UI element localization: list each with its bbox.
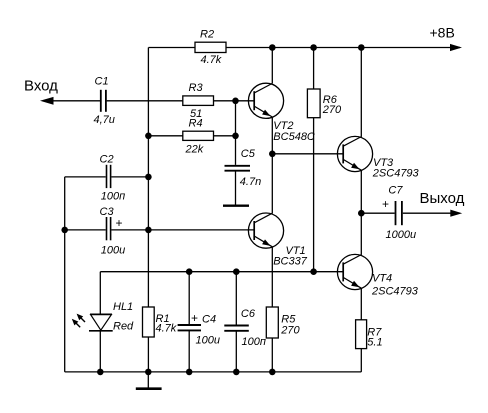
wire VT2 emitter down [271,117,273,154]
junction VT2 emitter node [269,151,276,158]
wire VT1 emitter down to R5 [271,246,273,307]
capacitor C7 [396,201,402,225]
resistor R3 [183,96,214,106]
wire C3 right lead to VT1 base [111,229,254,231]
junction C3 right [145,227,152,234]
wire top rail left segment [148,47,195,49]
junction R6 bottom VT4 base [310,268,317,275]
resistor R6 [307,89,320,118]
wire R6 top lead [313,48,315,90]
junction bottom ground [145,369,152,376]
junction top rail at VT3 collector [358,44,365,51]
svg-text:C3: C3 [100,206,115,218]
transistor VT1 [248,213,283,248]
svg-text:C7: C7 [388,185,403,197]
wire VT3 emitter down [360,170,362,213]
LED HL1 [89,314,113,331]
svg-text:4.7k: 4.7k [201,54,222,66]
wire C4 top lead [188,272,190,325]
junction R3 node [232,98,239,105]
wire R6 bottom column [313,118,315,272]
junction bottom C6 [233,369,240,376]
wire C3 left lead [65,229,106,231]
junction C2 right [145,174,152,181]
svg-text:R5: R5 [281,313,296,325]
wire top rail right segment to +8V arrow [226,47,460,49]
svg-text:5.1: 5.1 [367,336,382,348]
input arrow [40,97,54,105]
capacitor C5 [225,166,251,171]
wire left column below R1 [147,337,149,372]
transistor VT3 [337,136,372,171]
junction top rail at VT2 collector [269,44,276,51]
output arrow [450,210,462,217]
svg-text:270: 270 [280,325,300,337]
svg-text:C6: C6 [241,308,256,320]
wire C1 to R3 [107,100,183,102]
wire LED top lead [99,272,101,314]
junction top rail at R6 [310,44,317,51]
svg-text:R2: R2 [200,28,214,40]
wire node column R3/R4 [235,101,237,136]
resistor R5 [266,307,278,338]
wire C2 right lead [111,176,148,178]
junction C6 top [233,268,240,275]
wire C6 bottom lead [235,331,237,372]
wire VT1 collector up [271,154,273,214]
junction output node [358,210,365,217]
ground [136,387,162,390]
wire ground stem [147,372,149,388]
LED HL1 emission arrow 1 [77,314,85,322]
transistor VT4 [337,254,372,289]
wire left rail [64,177,66,372]
svg-text:270: 270 [322,104,342,116]
svg-text:BC548C: BC548C [273,131,315,143]
svg-text:+: + [116,216,123,230]
svg-text:C2: C2 [100,154,114,166]
svg-text:R3: R3 [189,82,204,94]
wire R4 right lead [214,135,236,137]
wire left column x=148 [147,48,149,308]
svg-text:100u: 100u [101,245,125,257]
wire output node to C7 [361,212,394,214]
wire input line from arrow to C1 [44,100,100,102]
capacitor C1 [101,90,106,112]
svg-text:2SC4793: 2SC4793 [371,286,419,298]
junction bottom LED [97,369,104,376]
junction R4 right [232,133,239,140]
svg-text:C5: C5 [241,148,256,160]
wire C7 to output arrow [403,212,460,214]
wire C4 bottom lead [188,330,190,372]
wire bias rail to VT4 base [100,271,343,273]
svg-text:2SC4793: 2SC4793 [372,167,420,179]
junction bottom C4 [186,369,193,376]
wire R4 node down to C5 [235,136,237,165]
svg-text:4.7k: 4.7k [156,323,177,335]
wire node A to VT3 base [272,153,343,155]
svg-text:VT4: VT4 [372,273,392,285]
resistor R1 [143,307,155,337]
capacitor C6 [224,326,249,331]
resistor R2 [195,42,226,52]
svg-text:+: + [191,311,198,325]
svg-text:R4: R4 [189,118,203,130]
svg-text:C1: C1 [95,76,109,88]
transistor VT2 [248,83,283,118]
wire R3 to VT2 base [214,100,255,102]
wire C6 top lead [235,272,237,326]
junction C4 top [186,268,193,275]
junction R4 left [145,133,152,140]
resistor R4 [183,131,214,140]
svg-text:22k: 22k [185,144,204,156]
svg-text:Red: Red [113,321,134,333]
svg-text:4,7u: 4,7u [94,114,115,126]
svg-text:100п: 100п [242,336,266,348]
junction bottom R5 [269,369,276,376]
svg-text:Выход: Выход [420,190,465,207]
wire R4 left lead [148,135,182,137]
svg-text:HL1: HL1 [113,301,133,313]
svg-text:BC337: BC337 [273,256,308,268]
svg-text:+8В: +8В [430,24,455,40]
wire R5 bottom [271,338,273,372]
capacitor C3 [107,217,111,240]
wire VT4 collector up [360,213,362,255]
wire VT2 collector up [271,48,273,84]
wire R7 bottom [360,349,362,372]
svg-text:100п: 100п [101,191,125,203]
capacitor C4 [178,325,201,330]
capacitor C2 [107,165,111,188]
svg-text:+: + [382,197,389,211]
svg-text:4.7n: 4.7n [240,176,261,188]
wire VT4 emitter to R7 [360,288,362,320]
wire C2 left lead [65,176,106,178]
wire LED bottom lead [99,331,101,372]
svg-text:Вход: Вход [24,77,58,94]
junction C3 left [61,227,68,234]
svg-text:1000u: 1000u [386,229,417,241]
svg-text:C4: C4 [202,313,216,325]
wire bottom rail [65,371,362,373]
wire VT3 collector up [360,48,362,137]
svg-text:100u: 100u [196,335,220,347]
capacitor C5 end bar [223,205,249,207]
resistor R7 [356,320,367,349]
LED HL1 emission arrow 2 [72,319,80,327]
+8V arrow [450,44,462,51]
wire C5 bottom lead [235,172,237,205]
